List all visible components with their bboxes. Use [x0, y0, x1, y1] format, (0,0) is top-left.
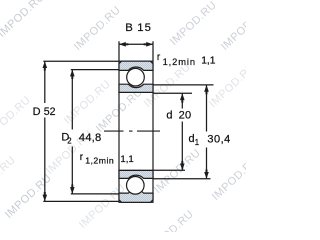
svg-text:d: d [166, 109, 172, 121]
svg-text:1,1: 1,1 [120, 154, 133, 165]
svg-text:52: 52 [44, 106, 56, 118]
svg-text:20: 20 [179, 109, 192, 121]
svg-text:1: 1 [195, 138, 199, 147]
svg-text:15: 15 [137, 22, 152, 34]
svg-text:r: r [157, 52, 161, 63]
svg-text:1,1: 1,1 [201, 56, 216, 67]
svg-text:B: B [125, 22, 133, 34]
svg-text:D: D [33, 106, 41, 118]
svg-text:2: 2 [67, 137, 71, 146]
svg-text:r: r [80, 152, 84, 163]
svg-text:44,8: 44,8 [79, 132, 102, 144]
svg-text:30,4: 30,4 [207, 134, 230, 146]
svg-text:1,2min: 1,2min [85, 155, 114, 165]
svg-text:1,2min: 1,2min [163, 57, 196, 67]
